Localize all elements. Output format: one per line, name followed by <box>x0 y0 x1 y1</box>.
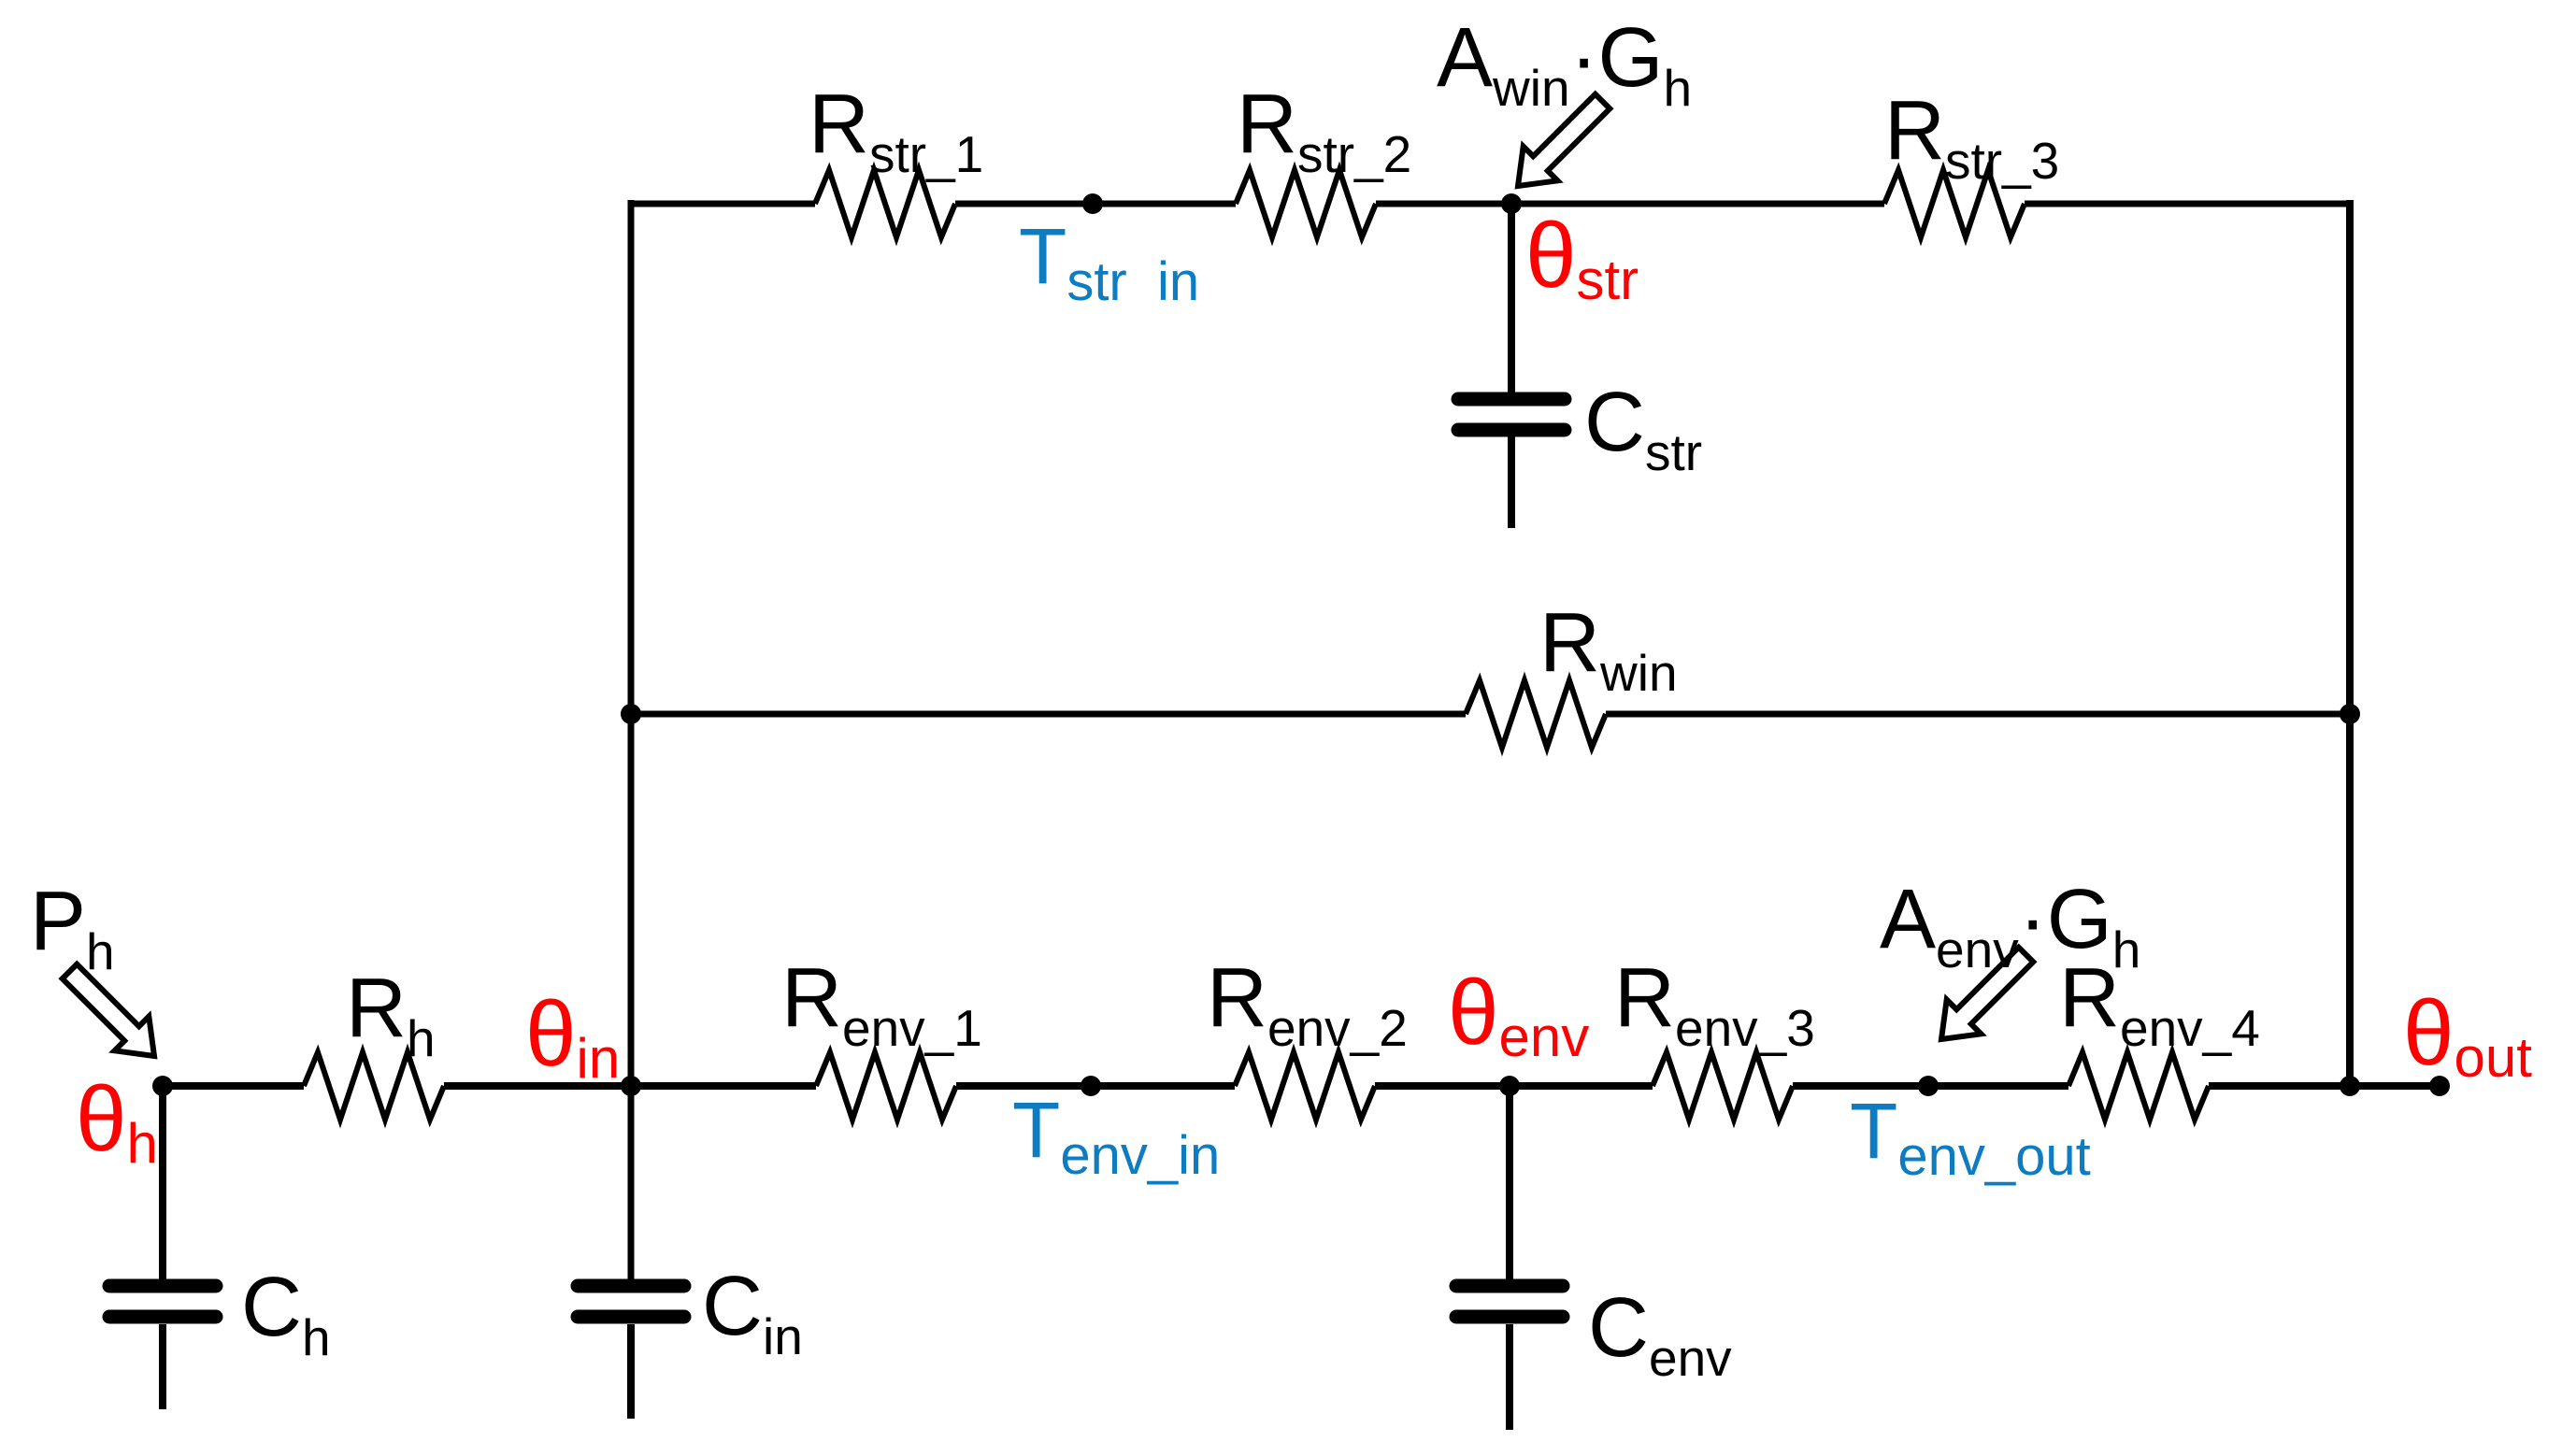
resistor R_str_3 <box>1884 84 2059 237</box>
capacitor C_in <box>578 1260 803 1419</box>
wire middle bus left segment <box>631 711 1466 718</box>
wire top bus left segment <box>631 201 815 207</box>
node theta_in <box>525 982 641 1096</box>
capacitor C_env <box>1456 1086 1732 1430</box>
node theta_out <box>2403 981 2532 1096</box>
wire bottom bus R_env_2 to R_env_3 <box>1375 1082 1653 1090</box>
wire top bus segment R_str_2 to R_str_3 <box>1376 201 1884 207</box>
capacitor C_h <box>109 1086 331 1409</box>
resistor R_h <box>304 962 444 1120</box>
node theta_str <box>1501 193 1639 311</box>
source arrow A_win·G_h <box>1437 11 1692 186</box>
resistor R_env_4 <box>2059 951 2260 1120</box>
node middle-right junction <box>2340 704 2360 724</box>
node bottom-right junction <box>2340 1076 2360 1096</box>
resistor R_env_1 <box>781 951 982 1120</box>
source arrow A_env·G_h <box>1880 873 2140 1039</box>
wire bottom bus theta_h to R_h <box>163 1082 304 1090</box>
node T_env_out <box>1850 1076 2091 1187</box>
node T_env_in <box>1012 1076 1220 1186</box>
wire bottom bus R_h to theta_in <box>444 1082 816 1090</box>
wire left vertical <box>628 200 635 1279</box>
node theta_env <box>1448 961 1589 1096</box>
resistor R_str_2 <box>1236 78 1411 237</box>
node T_str_in <box>1019 193 1199 312</box>
resistor R_str_1 <box>809 78 983 237</box>
wire top bus segment R_str_1 to R_str_2 <box>955 201 1236 207</box>
wire bottom bus R_env_1 to R_env_2 <box>956 1082 1235 1090</box>
node middle-left junction <box>621 704 641 724</box>
source arrow P_h <box>30 875 154 1056</box>
wire right vertical <box>2346 200 2354 1086</box>
wire middle bus right segment <box>1606 711 2350 718</box>
wire bottom bus R_env_3 to T_env_out <box>1793 1082 2068 1090</box>
wire top bus segment R_str_3 to right corner <box>2025 201 2350 207</box>
resistor R_env_3 <box>1614 951 1815 1120</box>
resistor R_env_2 <box>1207 951 1408 1120</box>
capacitor C_str <box>1458 204 1702 528</box>
node theta_h <box>76 1067 173 1175</box>
wire bottom bus R_env_4 to theta_out <box>2209 1082 2438 1090</box>
resistor R_win <box>1466 596 1678 748</box>
